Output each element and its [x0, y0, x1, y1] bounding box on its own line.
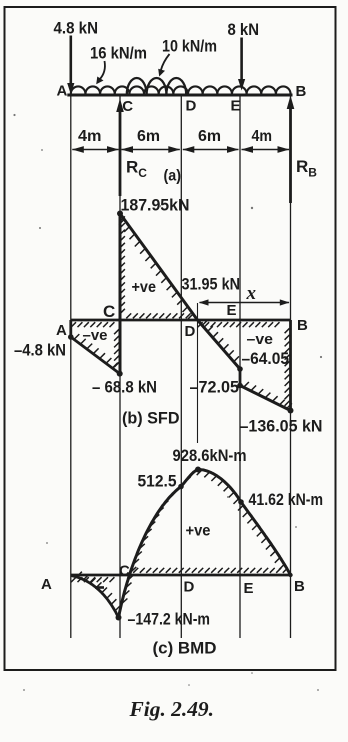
- SFD baseline axis: [71, 319, 291, 322]
- svg-text:D: D: [186, 98, 197, 115]
- hatch BMD lobe falling edge: [197, 470, 285, 570]
- svg-text:–ve: –ve: [247, 331, 274, 348]
- svg-text:8 kN: 8 kN: [228, 21, 260, 39]
- x-distance dimension arrow: [200, 302, 290, 304]
- SFD jump line at C (-68.8 to +187.95): [119, 214, 122, 374]
- BMD hogging curve A to C (-147.2): [71, 576, 119, 618]
- guideline at support B: [290, 95, 292, 638]
- reaction R_C arrow shaft: [119, 112, 122, 196]
- svg-text:(b) SFD: (b) SFD: [122, 410, 180, 428]
- svg-text:E: E: [244, 580, 254, 597]
- hatch -ve right B edge: [285, 328, 290, 406]
- guideline at point E: [239, 95, 241, 638]
- dot at B end of BMD: [288, 573, 292, 577]
- svg-text:D: D: [184, 579, 195, 596]
- svg-text:C: C: [119, 563, 130, 580]
- minus sign in BMD pocket: [95, 586, 104, 589]
- beam AB: [67, 94, 292, 97]
- SFD sloping line E to B (-136.05): [240, 386, 291, 411]
- svg-text:A: A: [57, 83, 68, 100]
- hatch +ve triangle left edge: [120, 216, 125, 313]
- hatch -ve right slope 2: [244, 382, 292, 409]
- SFD sloping line C to zero-crossing: [120, 214, 198, 321]
- svg-text:C: C: [122, 98, 133, 115]
- dimension arrow 4m (A-C): [72, 149, 118, 151]
- scan specks (noise): [13, 114, 15, 116]
- svg-text:6m: 6m: [137, 128, 160, 145]
- hatch -ve left hypotenuse: [74, 334, 118, 368]
- 8 kN load arrow shaft: [240, 38, 243, 81]
- dot at -72.05: [237, 383, 243, 389]
- svg-text:4.8 kN: 4.8 kN: [54, 20, 99, 38]
- reaction R_C arrowhead: [116, 99, 124, 113]
- svg-text:Fig. 2.49.: Fig. 2.49.: [128, 697, 214, 721]
- BMD falling curve peak to B: [198, 470, 291, 576]
- guideline at point D: [180, 95, 182, 638]
- guideline at SFD zero-crossing x: [197, 303, 199, 443]
- svg-text:–64.05: –64.05: [242, 350, 290, 368]
- guideline at support A: [70, 95, 72, 638]
- SFD sloping line A to C (-4.8 to -68.8): [71, 337, 120, 374]
- svg-text:41.62 kN-m: 41.62 kN-m: [249, 491, 324, 509]
- hatch BMD lobe along axis: [133, 568, 288, 573]
- svg-text:B: B: [294, 578, 305, 595]
- SFD step at E (8 kN drop): [239, 369, 242, 386]
- dot at -4.8: [68, 334, 74, 340]
- SFD step at A (-4.8): [69, 320, 72, 337]
- svg-text:31.95 kN: 31.95 kN: [182, 276, 241, 294]
- hatch BMD lobe rising edge: [122, 471, 196, 604]
- SFD sloping line crossing to E (-64.05): [198, 320, 241, 369]
- svg-text:+ve: +ve: [186, 523, 211, 540]
- svg-text:–ve: –ve: [83, 327, 108, 344]
- 8 kN load arrowhead: [238, 79, 245, 91]
- dot at -68.8: [117, 371, 123, 377]
- svg-text:–4.8 kN: –4.8 kN: [14, 342, 66, 360]
- svg-text:E: E: [227, 302, 237, 319]
- leader arrow for 16 kN/m: [100, 61, 105, 80]
- dot at +187.95 peak: [117, 211, 123, 217]
- BMD rising curve C to peak 928.6: [119, 470, 199, 618]
- dimension arrow 6m (C-D): [122, 149, 180, 151]
- svg-text:10 kN/m: 10 kN/m: [162, 38, 217, 56]
- svg-text:D: D: [185, 323, 196, 340]
- svg-text:(a): (a): [164, 168, 182, 185]
- hatch -ve right slope 1: [202, 320, 239, 362]
- svg-text:A: A: [41, 576, 52, 593]
- udl 16 kN/m coil humps (small): [71, 86, 291, 94]
- hatch -ve left along axis: [71, 322, 114, 327]
- svg-text:187.95kN: 187.95kN: [121, 197, 190, 215]
- hatch -ve left right edge: [114, 329, 119, 367]
- svg-text:(c) BMD: (c) BMD: [153, 640, 217, 658]
- svg-text:4m: 4m: [252, 128, 273, 145]
- dot at -64.05: [237, 366, 243, 372]
- svg-text:+ve: +ve: [132, 279, 157, 296]
- dot at 512.5 (D): [178, 484, 184, 490]
- arrowhead 16 kN/m leader: [96, 77, 103, 85]
- reaction R_B arrowhead: [287, 96, 295, 110]
- svg-text:4m: 4m: [78, 128, 102, 145]
- dot at -136.05: [288, 408, 294, 414]
- dot at 41.62 (E): [238, 499, 244, 505]
- svg-text:A: A: [56, 322, 67, 339]
- hatch -ve right along axis: [198, 322, 280, 327]
- guideline at support C: [119, 95, 121, 638]
- arrowhead 10 kN/m leader: [158, 69, 165, 77]
- svg-text:–147.2 kN-m: –147.2 kN-m: [128, 611, 211, 629]
- svg-text:– 68.8 kN: – 68.8 kN: [92, 379, 157, 397]
- 4.8 kN load arrowhead: [67, 83, 74, 95]
- hatch BMD pocket along axis: [71, 577, 114, 582]
- svg-text:–136.05 kN: –136.05 kN: [240, 418, 323, 436]
- svg-text:C: C: [103, 302, 115, 321]
- svg-text:512.5: 512.5: [138, 473, 177, 491]
- svg-text:–72.05: –72.05: [190, 379, 240, 397]
- BMD baseline axis: [71, 574, 291, 577]
- leader arrow for 10 kN/m: [161, 54, 170, 71]
- svg-text:x: x: [246, 283, 257, 304]
- dimension arrow 6m (D-E): [183, 149, 239, 151]
- dot at 928.6 peak: [195, 467, 201, 473]
- svg-text:B: B: [297, 317, 308, 334]
- dot at -147.2 (C): [116, 615, 122, 621]
- SFD closing line at B: [289, 320, 292, 411]
- reaction R_B arrow shaft: [289, 108, 292, 203]
- 4.8 kN load arrow shaft: [70, 36, 73, 85]
- udl taller coil humps near C-D: [127, 78, 186, 95]
- hatch +ve triangle along axis: [126, 313, 190, 318]
- svg-text:6m: 6m: [198, 128, 221, 145]
- hatch +ve triangle hypotenuse: [119, 219, 193, 319]
- svg-text:16 kN/m: 16 kN/m: [90, 45, 147, 63]
- svg-text:E: E: [231, 98, 241, 115]
- hatch BMD pocket along curve: [77, 572, 121, 611]
- dimension arrow 4m (E-B): [242, 149, 290, 151]
- svg-text:B: B: [296, 83, 307, 100]
- svg-text:928.6kN-m: 928.6kN-m: [173, 447, 247, 465]
